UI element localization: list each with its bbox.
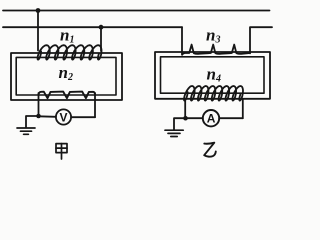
voltmeter V [56, 109, 71, 124]
wire: dot to voltmeter [39, 115, 56, 118]
wire: lower transmission line [3, 26, 182, 28]
wire: to left ground [26, 116, 39, 127]
label 甲 (jiǎ) drawn as strokes [56, 144, 67, 159]
wire: n2 left lead [38, 93, 40, 116]
wire: dot to ammeter [186, 117, 203, 119]
svg-text:n4: n4 [207, 65, 221, 85]
wire: n1 left lead (crosses lower line, no join) [37, 11, 39, 51]
wire: n3 left lead from lower line [181, 27, 183, 54]
wire: top transmission line [3, 10, 270, 12]
transformer core (outer), right [155, 52, 270, 99]
node: junction dot on lower line [99, 25, 104, 30]
coil n1 (primary of 甲) [38, 45, 102, 59]
coil n4 (secondary of 乙) [184, 86, 243, 101]
svg-text:A: A [207, 112, 216, 126]
svg-text:n3: n3 [206, 25, 220, 45]
svg-text:n2: n2 [59, 63, 73, 83]
coil n3 (primary of 乙, series in line) [182, 45, 250, 55]
node: junction dot on top line [36, 8, 41, 13]
wire: voltmeter to n2 right lead [71, 116, 95, 118]
wire: ammeter to n4 right lead [219, 117, 243, 119]
wire: n4 left lead [184, 99, 186, 118]
wire: n1 right lead [100, 27, 102, 51]
wire: n4 right lead [242, 99, 244, 118]
transformer core (outer), left [11, 53, 122, 100]
ammeter A [203, 110, 219, 126]
transformer core (inner), left [16, 57, 116, 95]
node: junction dot at ammeter branch [183, 116, 188, 121]
ground (left) [17, 128, 35, 134]
node: junction dot at voltmeter branch [36, 114, 41, 119]
coil n2 (secondary of 甲) [39, 92, 96, 99]
wire: to right ground [174, 118, 186, 129]
wire: n3 right lead and outgoing stub [250, 27, 272, 53]
transformer core (inner), right [161, 57, 265, 93]
svg-text:V: V [60, 110, 68, 124]
svg-text:n1: n1 [60, 25, 74, 45]
wire: n2 right lead [94, 93, 96, 117]
ground (right) [165, 130, 183, 136]
label 乙 (yǐ) drawn as strokes [204, 143, 216, 157]
